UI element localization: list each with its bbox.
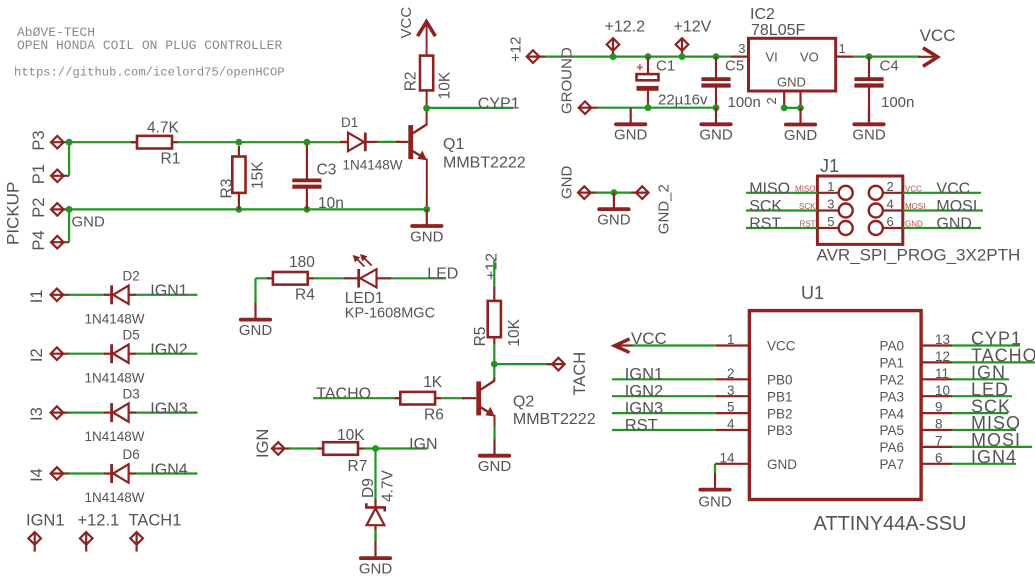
svg-text:RST: RST	[625, 416, 658, 434]
label IGN4	[971, 447, 1017, 467]
ground	[359, 542, 393, 578]
wire	[647, 91, 649, 103]
resistor R1 4.7K	[131, 120, 180, 168]
power flag +12.2	[605, 19, 646, 57]
svg-text:TACHO: TACHO	[316, 386, 371, 403]
svg-text:8: 8	[935, 417, 943, 432]
wire	[68, 353, 105, 355]
power flag VCC	[398, 7, 435, 56]
junction	[66, 206, 73, 213]
wire	[493, 425, 495, 439]
svg-text:GND: GND	[699, 127, 733, 144]
resistor R6 1K	[395, 374, 444, 423]
resistor R7 10K	[318, 427, 368, 475]
pin P1	[30, 164, 69, 184]
svg-text:I2: I2	[28, 348, 46, 362]
svg-text:+12: +12	[484, 253, 501, 280]
junction	[611, 189, 618, 196]
zener diode D9 4.7V	[360, 469, 397, 541]
svg-text:P3: P3	[30, 130, 48, 150]
capacitor C4 100n	[854, 57, 914, 124]
svg-text:KP-1608MGC: KP-1608MGC	[345, 305, 435, 321]
wire	[427, 107, 513, 109]
svg-text:14: 14	[719, 450, 735, 465]
wire	[853, 55, 920, 57]
svg-text:+12V: +12V	[674, 19, 712, 36]
pin P3	[30, 130, 69, 150]
svg-text:C1: C1	[656, 58, 675, 75]
svg-text:IGN2: IGN2	[150, 342, 187, 359]
title text Ab0VE-TECH	[14, 25, 285, 80]
svg-text:GND: GND	[559, 166, 576, 200]
svg-text:3: 3	[738, 41, 745, 56]
junction	[372, 445, 379, 452]
wire	[493, 344, 495, 380]
svg-text:Q2: Q2	[513, 393, 534, 410]
svg-text:C5: C5	[725, 58, 744, 75]
label RST	[625, 416, 658, 434]
resistor R2 10K	[403, 56, 454, 108]
wire	[952, 463, 1016, 465]
svg-text:100n: 100n	[728, 94, 761, 111]
svg-text:+12.1: +12.1	[78, 511, 120, 529]
ground	[597, 193, 631, 229]
wire	[952, 412, 1008, 414]
svg-text:GND: GND	[239, 322, 273, 339]
svg-text:1N4148W: 1N4148W	[85, 370, 145, 385]
svg-text:GND: GND	[767, 457, 797, 472]
label IGN3	[625, 399, 664, 417]
net label GND	[72, 214, 106, 231]
svg-text:GND: GND	[614, 127, 648, 144]
svg-text:PB3: PB3	[767, 423, 793, 438]
pin GND_2	[629, 184, 673, 234]
label LED	[971, 379, 1009, 399]
wire	[952, 429, 1016, 431]
wire	[903, 192, 981, 194]
wire	[68, 209, 70, 242]
wire	[136, 294, 198, 296]
svg-text:VO: VO	[800, 49, 819, 64]
label MOSI	[971, 430, 1021, 450]
svg-text:PA3: PA3	[879, 389, 904, 404]
wire	[597, 107, 716, 109]
pin GND	[578, 186, 598, 199]
svg-text:D1: D1	[341, 115, 358, 130]
label RST	[749, 216, 781, 233]
pin P4	[30, 230, 69, 250]
diode D1 1N4148W	[340, 115, 403, 173]
power flag VCC right	[918, 26, 956, 66]
label TACHO	[971, 346, 1035, 366]
svg-text:Q1: Q1	[443, 136, 464, 153]
svg-text:MMBT2222: MMBT2222	[443, 154, 526, 171]
wire	[68, 412, 105, 414]
svg-text:13: 13	[935, 332, 950, 347]
power flag +12V	[674, 19, 712, 57]
connector J1 AVR_SPI_PROG_3X2PTH	[795, 156, 1020, 265]
wire	[952, 446, 1032, 448]
junction	[491, 361, 498, 368]
svg-text:TACH1: TACH1	[129, 511, 182, 529]
svg-text:11: 11	[935, 366, 949, 381]
power flag VCC left	[615, 329, 667, 353]
svg-text:LED: LED	[427, 266, 458, 283]
wire	[136, 472, 198, 474]
wire	[68, 142, 70, 176]
ground	[478, 439, 512, 475]
svg-text:9: 9	[935, 400, 943, 415]
svg-text:OPEN HONDA COIL ON PLUG CONTRO: OPEN HONDA COIL ON PLUG CONTROLLER	[17, 38, 282, 53]
wire	[647, 103, 649, 108]
svg-text:PB0: PB0	[767, 373, 793, 388]
junction	[797, 105, 804, 112]
pin TACH	[547, 352, 589, 396]
svg-text:R1: R1	[161, 151, 181, 168]
svg-text:PA4: PA4	[879, 406, 904, 421]
svg-text:IGN1: IGN1	[150, 283, 187, 300]
svg-text:IGN: IGN	[409, 436, 437, 453]
svg-text:PA1: PA1	[879, 356, 904, 371]
svg-text:PICKUP: PICKUP	[4, 182, 23, 245]
capacitor C5 100n	[701, 57, 760, 111]
svg-text:D5: D5	[123, 327, 140, 342]
svg-text:IC2: IC2	[750, 6, 775, 23]
label GND	[936, 216, 972, 233]
wire	[952, 395, 1012, 397]
transistor Q2 MMBT2222	[462, 378, 596, 439]
junction	[304, 206, 311, 213]
diode D6 1N4148W	[85, 447, 145, 505]
junction	[713, 104, 720, 111]
wire	[784, 107, 800, 109]
svg-text:1N4148W: 1N4148W	[85, 311, 145, 326]
svg-text:P2: P2	[30, 198, 48, 218]
svg-text:PA2: PA2	[879, 373, 904, 388]
svg-text:5: 5	[727, 400, 735, 415]
svg-text:D2: D2	[123, 269, 140, 284]
net label PICKUP	[4, 182, 23, 245]
wire	[746, 209, 817, 211]
svg-text:1K: 1K	[423, 374, 443, 391]
svg-text:GND: GND	[359, 561, 393, 578]
wire	[612, 395, 716, 397]
wire	[441, 397, 464, 399]
wire	[746, 227, 817, 229]
svg-text:R4: R4	[295, 287, 315, 304]
ground	[852, 108, 886, 144]
svg-text:180: 180	[289, 254, 315, 271]
svg-text:I4: I4	[28, 468, 46, 482]
wire	[714, 463, 717, 465]
wire	[391, 277, 446, 279]
svg-text:4: 4	[727, 417, 735, 432]
ground	[699, 108, 733, 144]
pin IGN	[254, 429, 291, 458]
junction	[645, 53, 652, 60]
label IGN1	[150, 283, 187, 300]
svg-text:78L05F: 78L05F	[751, 22, 805, 39]
svg-text:U1: U1	[801, 283, 824, 303]
pin +12	[508, 37, 548, 63]
svg-text:R7: R7	[348, 458, 368, 475]
svg-text:10K: 10K	[337, 427, 365, 444]
svg-text:R6: R6	[424, 407, 444, 424]
label VCC	[936, 180, 970, 197]
svg-text:2: 2	[764, 97, 779, 104]
junction	[66, 139, 73, 146]
wire	[136, 412, 198, 414]
svg-text:R2: R2	[403, 71, 420, 91]
svg-text:GND: GND	[698, 494, 732, 511]
svg-text:MISO: MISO	[749, 180, 790, 197]
wire	[374, 530, 376, 542]
svg-text:1: 1	[839, 41, 846, 56]
svg-text:+12: +12	[508, 37, 525, 62]
pin P2	[30, 198, 69, 218]
net label GROUND	[559, 47, 576, 114]
wire	[68, 472, 105, 474]
wire	[68, 294, 105, 296]
svg-text:AVR_SPI_PROG_3X2PTH: AVR_SPI_PROG_3X2PTH	[817, 246, 1021, 265]
label CYP1	[478, 95, 520, 112]
svg-text:1N4148W: 1N4148W	[343, 158, 403, 173]
junction	[679, 53, 686, 60]
net label +12	[484, 253, 501, 280]
wire	[314, 277, 345, 279]
label TACHO	[316, 386, 371, 403]
svg-text:GND: GND	[72, 214, 106, 231]
pin I1	[28, 289, 70, 304]
label IGN2	[150, 342, 187, 359]
wire	[714, 464, 716, 473]
label SCK	[749, 198, 782, 215]
wire	[746, 192, 817, 194]
wire	[378, 141, 400, 143]
label IGN	[409, 436, 437, 453]
svg-text:VCC: VCC	[920, 26, 956, 45]
svg-text:PB2: PB2	[767, 406, 793, 421]
LED LED1 KP-1608MGC	[344, 254, 435, 321]
svg-text:VI: VI	[766, 49, 778, 64]
ground	[698, 473, 732, 511]
svg-text:1N4148W: 1N4148W	[85, 490, 145, 505]
junction	[781, 105, 788, 112]
svg-text:10n: 10n	[318, 195, 344, 212]
junction	[423, 206, 430, 213]
wire	[69, 141, 137, 143]
pin IGN1	[26, 511, 65, 551]
svg-text:IGN: IGN	[254, 429, 272, 458]
pin +12.1	[78, 511, 120, 551]
svg-text:IGN2: IGN2	[625, 383, 664, 401]
svg-text:R3: R3	[219, 179, 236, 199]
svg-text:GND: GND	[852, 127, 886, 144]
label CYP1	[971, 329, 1022, 349]
wire	[313, 397, 400, 399]
wire	[289, 447, 323, 449]
wire	[632, 344, 716, 346]
label SCK	[971, 396, 1011, 416]
svg-text:MOSI: MOSI	[936, 198, 977, 215]
svg-text:3: 3	[827, 197, 834, 212]
label MISO	[749, 180, 790, 197]
svg-text:IGN1: IGN1	[625, 366, 664, 384]
svg-text:PA6: PA6	[879, 440, 904, 455]
svg-text:VCC: VCC	[398, 7, 415, 39]
svg-text:4.7K: 4.7K	[147, 120, 180, 137]
svg-text:GND: GND	[597, 212, 631, 229]
svg-text:I1: I1	[28, 289, 46, 303]
svg-text:VCC: VCC	[767, 339, 796, 354]
svg-text:IGN1: IGN1	[26, 511, 65, 529]
svg-text:GND: GND	[777, 75, 806, 90]
wire	[545, 55, 731, 57]
svg-text:100n: 100n	[881, 94, 914, 111]
svg-text:GND_2: GND_2	[656, 184, 673, 234]
svg-text:J1: J1	[820, 156, 839, 176]
pin I2	[28, 347, 70, 362]
label LED	[427, 266, 458, 283]
svg-text:IGN4: IGN4	[971, 447, 1017, 467]
svg-text:https://github.com/icelord75/o: https://github.com/icelord75/openHCOP	[14, 66, 285, 80]
label MOSI	[936, 198, 977, 215]
wire	[136, 353, 198, 355]
wire	[596, 192, 631, 194]
svg-text:+12.2: +12.2	[605, 19, 646, 36]
svg-text:VCC: VCC	[936, 180, 970, 197]
net label GND	[559, 166, 576, 200]
capacitor C1 22u16v	[637, 57, 709, 109]
capacitor C3 10n	[292, 145, 344, 212]
diode D3 1N4148W	[85, 386, 145, 444]
wire	[69, 208, 427, 210]
svg-text:1: 1	[827, 179, 834, 194]
svg-text:6: 6	[887, 214, 894, 229]
svg-text:10K: 10K	[437, 71, 454, 99]
svg-text:GROUND: GROUND	[559, 47, 576, 114]
ground	[410, 209, 444, 245]
resistor R4 180	[267, 254, 315, 304]
svg-text:D6: D6	[123, 447, 140, 462]
regulator IC2 78L05F	[731, 6, 853, 108]
pin I3	[28, 406, 70, 421]
svg-text:PA7: PA7	[879, 457, 904, 472]
svg-text:P4: P4	[30, 230, 48, 250]
junction	[866, 53, 873, 60]
wire	[364, 447, 427, 449]
wire	[903, 209, 983, 211]
diode D5 1N4148W	[85, 327, 145, 385]
svg-text:2: 2	[727, 366, 735, 381]
mcu U1 ATTINY44A-SSU	[716, 283, 967, 535]
svg-text:PA5: PA5	[879, 423, 904, 438]
pin I4	[28, 467, 70, 482]
svg-text:7: 7	[935, 434, 943, 449]
svg-text:C4: C4	[880, 58, 899, 75]
svg-text:IGN3: IGN3	[150, 400, 187, 417]
label MISO	[971, 413, 1021, 433]
svg-text:IGN4: IGN4	[150, 461, 187, 478]
wire	[952, 361, 1035, 363]
svg-text:5: 5	[827, 214, 834, 229]
svg-text:1: 1	[727, 332, 735, 347]
svg-text:P1: P1	[30, 164, 48, 184]
svg-text:2: 2	[887, 179, 894, 194]
transistor Q1 MMBT2222	[396, 108, 526, 209]
junction	[610, 53, 617, 60]
wire	[374, 449, 376, 504]
ground	[784, 108, 818, 144]
wire	[493, 260, 495, 286]
svg-text:4: 4	[887, 197, 894, 212]
svg-text:PA0: PA0	[879, 339, 904, 354]
svg-text:1N4148W: 1N4148W	[85, 429, 145, 444]
svg-text:RST: RST	[749, 216, 781, 233]
svg-text:D9: D9	[360, 478, 377, 498]
svg-text:GND: GND	[936, 216, 972, 233]
svg-text:3: 3	[727, 383, 735, 398]
ground	[239, 278, 273, 339]
svg-text:PB1: PB1	[767, 389, 793, 404]
pin GROUND	[579, 101, 599, 114]
wire	[178, 141, 347, 143]
wire	[952, 344, 1020, 346]
svg-text:TACH: TACH	[571, 352, 589, 396]
junction	[236, 206, 243, 213]
svg-text:GND: GND	[410, 228, 444, 245]
svg-text:CYP1: CYP1	[478, 95, 520, 112]
svg-text:MMBT2222: MMBT2222	[513, 411, 596, 428]
resistor R5 10K	[472, 286, 523, 346]
svg-text:10K: 10K	[506, 318, 523, 346]
svg-text:15K: 15K	[250, 161, 267, 189]
junction	[304, 139, 311, 146]
junction	[236, 139, 243, 146]
svg-text:4.7V: 4.7V	[380, 469, 397, 502]
svg-text:10: 10	[935, 383, 950, 398]
diode D2 1N4148W	[85, 269, 145, 327]
label IGN2	[625, 383, 664, 401]
svg-text:D3: D3	[123, 386, 140, 401]
node CYP1	[423, 105, 430, 112]
wire	[903, 227, 981, 229]
svg-text:C3: C3	[317, 162, 337, 179]
pin TACH1	[129, 511, 182, 551]
wire	[612, 429, 716, 431]
svg-text:6: 6	[935, 450, 943, 465]
junction	[645, 104, 652, 111]
label IGN	[971, 363, 1006, 383]
wire	[256, 277, 273, 279]
svg-text:12: 12	[935, 349, 950, 364]
ground	[614, 108, 648, 144]
svg-text:IGN3: IGN3	[625, 399, 664, 417]
svg-text:SCK: SCK	[749, 198, 782, 215]
svg-text:I3: I3	[28, 407, 46, 421]
junction	[713, 53, 720, 60]
svg-text:ATTINY44A-SSU: ATTINY44A-SSU	[814, 513, 967, 535]
svg-text:GND: GND	[478, 458, 512, 475]
label IGN3	[150, 400, 187, 417]
label IGN4	[150, 461, 187, 478]
wire	[612, 378, 716, 380]
svg-text:R5: R5	[472, 327, 489, 347]
svg-text:GND: GND	[784, 127, 818, 144]
wire	[952, 378, 1009, 380]
svg-text:22µ16v: 22µ16v	[658, 92, 708, 109]
wire	[612, 412, 716, 414]
